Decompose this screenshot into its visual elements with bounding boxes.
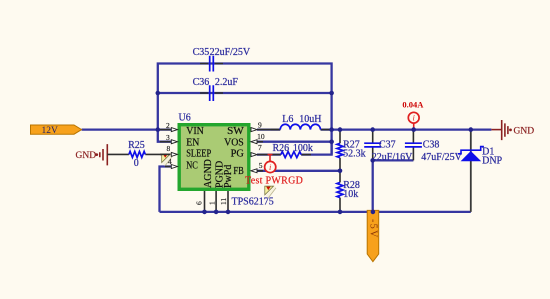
U6 pin 7 PG (231, 143, 281, 159)
junction AGND pin on -5V rail (202, 210, 207, 215)
U6 pin 9 SW (227, 120, 280, 137)
svg-text:22uF/16V: 22uF/16V (372, 152, 413, 163)
svg-text:C38: C38 (423, 140, 440, 151)
junction SW/L6 output at caps vertical (329, 127, 334, 132)
capacitor C35 (193, 47, 251, 72)
svg-text:VIN: VIN (186, 126, 204, 137)
svg-text:DNP: DNP (482, 156, 502, 167)
wire: NC pin4 down to -5V rail (160, 167, 172, 212)
svg-text:2.2uF: 2.2uF (215, 77, 239, 88)
svg-text:0.04A: 0.04A (402, 100, 424, 110)
wire: PG row pin7 to R26 (257, 153, 281, 155)
svg-text:9: 9 (258, 120, 262, 129)
U6 pin 10 VOS (224, 132, 265, 149)
svg-text:Test PWRGD: Test PWRGD (245, 175, 303, 186)
junction R27 top on GND node (338, 127, 343, 132)
svg-text:0: 0 (134, 158, 139, 169)
no-ERC marker below Test PWRGD (265, 186, 276, 198)
svg-text:VOS: VOS (224, 137, 244, 148)
U6 pin 11 PwPd bottom (219, 165, 234, 212)
power flag -5V (367, 210, 379, 261)
capacitor C37 (364, 131, 413, 164)
wire: SW row from pin9 to L6 (257, 128, 280, 130)
current probe 0.04A (402, 100, 424, 130)
svg-text:11: 11 (219, 198, 228, 205)
junction FB node R27/R28 (338, 169, 343, 174)
svg-text:GND: GND (514, 126, 535, 136)
svg-text:100k: 100k (293, 143, 313, 154)
svg-text:6: 6 (194, 201, 203, 205)
wire: input cap loop verticals and C35 row (158, 64, 332, 155)
svg-text:AGND: AGND (203, 159, 214, 188)
wire: R26 right to VOS node (301, 142, 331, 155)
capacitor C38 (405, 131, 463, 164)
junction C37/C38 bottom link (370, 158, 375, 163)
junction 12V node at caps vertical (156, 127, 161, 132)
U6 pin 1 PGND bottom (208, 161, 226, 212)
svg-text:C36: C36 (193, 77, 210, 88)
resistor R25 0ohm (107, 140, 171, 169)
junction C36 row right (329, 91, 334, 96)
wire: C37 bottom to C38 bottom link (373, 159, 414, 161)
IC U6 TPS62175 body (179, 112, 274, 207)
svg-text:SLEEP: SLEEP (186, 149, 211, 160)
no-ERC marker at pin8 (162, 154, 173, 166)
diode D1 zener DNP (458, 130, 503, 212)
inductor L6 (271, 114, 330, 129)
svg-text:C37: C37 (379, 140, 396, 151)
svg-text:47uF/25V: 47uF/25V (421, 152, 462, 163)
U6 pin 5 FB (233, 161, 263, 177)
svg-text:PwPd: PwPd (223, 165, 234, 188)
junction PGND pin on -5V rail (214, 210, 219, 215)
U6 pin 6 AGND bottom (194, 159, 214, 212)
resistor R26 100k (273, 143, 313, 158)
svg-text:10k: 10k (343, 189, 358, 200)
resistor R27 52.3k (337, 130, 366, 171)
svg-text:L6: L6 (282, 114, 293, 125)
svg-text:2: 2 (166, 121, 170, 130)
ground symbol right (GND) (491, 120, 534, 140)
junction VOS row at vertical (329, 139, 334, 144)
wire: VOS row pin10 (257, 141, 332, 143)
svg-text:22uF/25V: 22uF/25V (210, 47, 251, 58)
U6 pin 8 SLEEP (160, 144, 212, 160)
wire: C37 bottom down to -5V rail (372, 160, 374, 212)
junction C36 row left (156, 91, 161, 96)
U6 pin 2 VIN (160, 121, 204, 137)
svg-text:4: 4 (168, 157, 172, 166)
svg-text:10uH: 10uH (299, 114, 321, 125)
junction PwPd pin on -5V rail (226, 210, 231, 215)
svg-text:TPS62175: TPS62175 (232, 197, 274, 208)
svg-text:SW: SW (227, 126, 244, 137)
svg-text:52.3k: 52.3k (343, 148, 366, 159)
svg-text:PG: PG (231, 149, 244, 160)
svg-text:1: 1 (208, 201, 217, 205)
svg-text:NC: NC (186, 161, 198, 172)
svg-text:U6: U6 (179, 112, 191, 123)
current probe on PG net (Test PWRGD) (265, 155, 276, 173)
svg-text:3: 3 (166, 133, 170, 142)
svg-text:R25: R25 (128, 140, 145, 151)
svg-text:5: 5 (259, 161, 263, 170)
wire: -5V bottom rail (160, 211, 471, 213)
junction C38/probe on GND node (411, 127, 416, 132)
svg-text:7: 7 (258, 143, 262, 152)
svg-text:GND: GND (76, 151, 97, 161)
svg-text:C35: C35 (193, 47, 210, 58)
svg-text:-5V: -5V (367, 219, 378, 239)
svg-text:EN: EN (186, 137, 199, 148)
wire: 12V input to pin2 (82, 128, 171, 130)
ground symbol left (GND) (76, 144, 108, 165)
junction D1 cathode on GND node (469, 127, 474, 132)
capacitor C36 (193, 77, 239, 101)
U6 pin 3 EN (160, 133, 199, 149)
wire: L6 to GND node, full top output row (321, 128, 492, 130)
resistor R28 10k (337, 171, 360, 212)
svg-text:10: 10 (257, 132, 265, 141)
wire: C36 row (158, 92, 332, 94)
U6 pin 4 NC (165, 157, 198, 172)
junction R28 bottom on -5V rail (338, 210, 343, 215)
junction -5V flag on rail (371, 210, 376, 215)
power flag 12V (31, 125, 82, 136)
junction C37 top on GND node (370, 127, 375, 132)
svg-text:FB: FB (233, 166, 244, 177)
svg-text:8: 8 (167, 144, 171, 153)
wire: FB row pin5 to R27/R28 junction (257, 170, 340, 172)
wire: EN branch from 12V node (158, 130, 171, 142)
svg-text:R26: R26 (273, 143, 290, 154)
svg-text:12V: 12V (42, 126, 59, 136)
